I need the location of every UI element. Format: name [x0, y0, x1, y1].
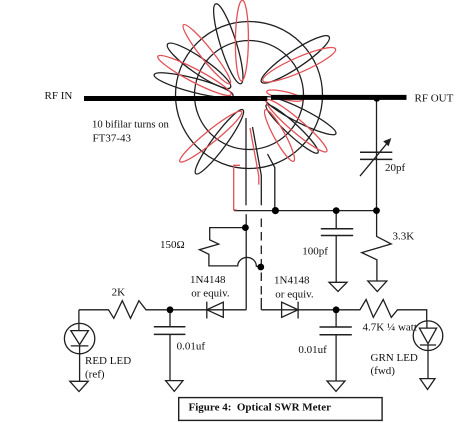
svg-text:20pf: 20pf [385, 162, 406, 174]
svg-text:4.7K ¼ watt: 4.7K ¼ watt [363, 322, 417, 334]
svg-text:GRN LED: GRN LED [371, 352, 418, 364]
svg-text:RF IN: RF IN [45, 90, 73, 102]
svg-text:0.01uf: 0.01uf [177, 341, 206, 353]
svg-text:FT37-43: FT37-43 [93, 133, 132, 145]
svg-text:(ref): (ref) [85, 369, 105, 381]
svg-text:100pf: 100pf [302, 246, 328, 258]
svg-text:10 bifilar turns on: 10 bifilar turns on [92, 119, 170, 131]
svg-text:2K: 2K [112, 286, 126, 298]
svg-text:1N4148: 1N4148 [274, 275, 310, 287]
svg-text:3.3K: 3.3K [393, 231, 415, 243]
svg-text:1N4148: 1N4148 [190, 274, 226, 286]
svg-text:(fwd): (fwd) [371, 365, 396, 377]
svg-text:RED LED: RED LED [85, 355, 131, 367]
svg-text:or equiv.: or equiv. [275, 289, 314, 301]
svg-text:or equiv.: or equiv. [191, 288, 230, 300]
svg-text:150Ω: 150Ω [160, 239, 185, 251]
svg-text:RF OUT: RF OUT [415, 93, 454, 105]
svg-text:Figure 4: Optical SWR Meter: Figure 4: Optical SWR Meter [189, 402, 332, 414]
svg-text:0.01uf: 0.01uf [298, 344, 327, 356]
